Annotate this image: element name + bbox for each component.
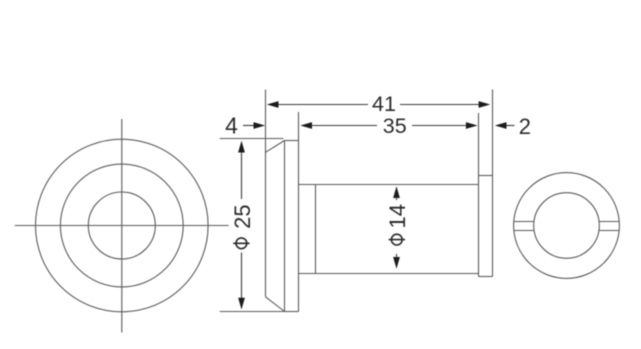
svg-text:2: 2	[519, 114, 531, 139]
svg-text:41: 41	[372, 92, 396, 116]
svg-text:4: 4	[225, 113, 238, 139]
svg-text:35: 35	[383, 114, 407, 138]
svg-text:14: 14	[385, 204, 410, 228]
svg-text:25: 25	[230, 204, 255, 228]
